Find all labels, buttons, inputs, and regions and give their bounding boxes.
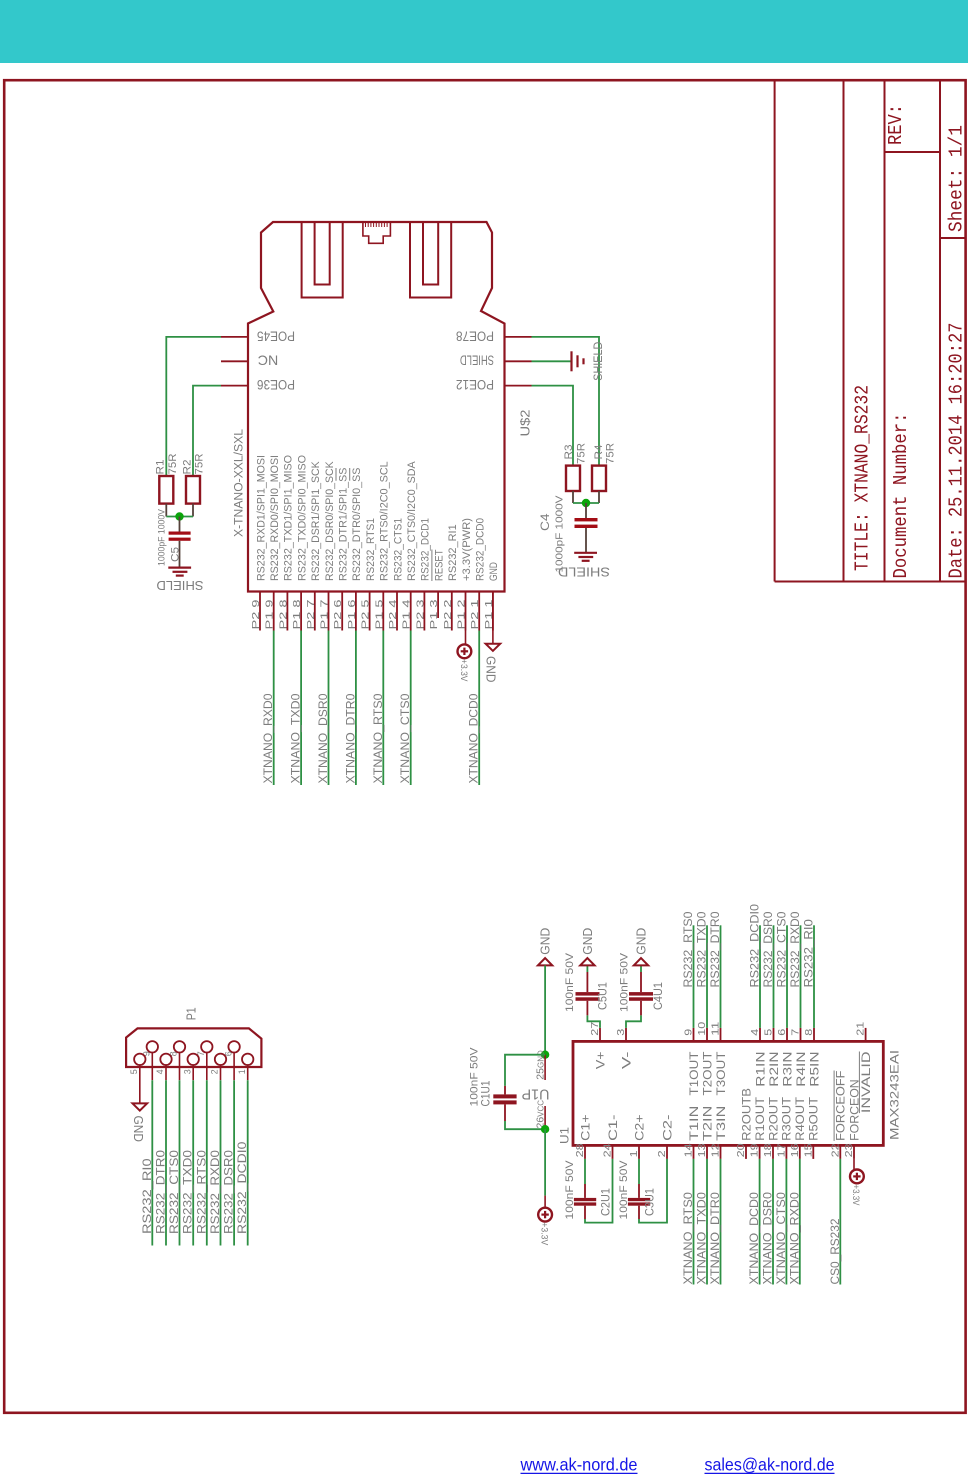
label U$2 <box>518 410 533 437</box>
title text Sheet: 1/1 <box>946 125 968 232</box>
svg-text:T1IN: T1IN <box>689 1106 701 1141</box>
svg-text:RS232_RI0: RS232_RI0 <box>804 919 816 987</box>
pin P1 9 (RS232_RXD0/SPI0_MOSI) of U$2 <box>264 455 281 631</box>
RJ45 left mounting slot <box>302 222 343 298</box>
svg-text:R4: R4 <box>593 445 605 460</box>
svg-text:P2 6: P2 6 <box>332 599 344 629</box>
wire POE78 to R4 <box>532 337 600 466</box>
pin 9 of P1 <box>142 1041 159 1080</box>
pin POE45 of U$2 <box>221 328 295 343</box>
svg-text:RS232_DTR1/SPI1_SS: RS232_DTR1/SPI1_SS <box>338 468 350 581</box>
wire POE36 to R2 <box>193 386 221 476</box>
svg-text:18: 18 <box>762 1143 774 1157</box>
svg-text:FORCEOFF: FORCEOFF <box>836 1071 848 1141</box>
svg-text:T1OUT: T1OUT <box>689 1052 701 1096</box>
svg-text:3: 3 <box>182 1069 192 1074</box>
svg-text:1000pF 1000V: 1000pF 1000V <box>554 495 565 572</box>
pin 16 R4OUT of U1 <box>789 1097 807 1159</box>
svg-text:1: 1 <box>628 1150 640 1157</box>
wire and net label XTNANO_CTS0 <box>776 1159 788 1285</box>
svg-text:SHIELD: SHIELD <box>460 353 494 368</box>
gate label U1P <box>522 1086 550 1103</box>
svg-text:POE45: POE45 <box>257 328 295 343</box>
svg-text:T3IN: T3IN <box>716 1106 728 1141</box>
svg-text:Date: 25.11.2014 16:20:27: Date: 25.11.2014 16:20:27 <box>946 323 968 579</box>
svg-text:RS232_DCDI0: RS232_DCDI0 <box>750 904 762 988</box>
junction at R1 R2 C5 <box>175 512 183 520</box>
wire VCC junction to +3.3V <box>544 1129 546 1208</box>
net label SHIELD below C5 <box>157 578 204 592</box>
pin 6 R3IN of U1 <box>776 1028 794 1087</box>
pin P2 4 (RS232_CTS1) of U$2 <box>387 518 404 631</box>
wire pin 27 to C5U1 <box>587 1001 600 1028</box>
svg-text:XTNANO_CTS0: XTNANO_CTS0 <box>400 694 412 784</box>
svg-text:C1+: C1+ <box>580 1114 592 1141</box>
shield earth symbol below C5 <box>168 568 191 576</box>
pin 17 R3OUT of U1 <box>775 1097 793 1159</box>
svg-text:CS0_RS232: CS0_RS232 <box>830 1219 842 1285</box>
svg-text:R5IN: R5IN <box>809 1052 821 1087</box>
svg-text:GND: GND <box>488 562 500 581</box>
+3.3V supply symbol below U1P <box>538 1208 552 1246</box>
svg-text:C5: C5 <box>169 547 181 562</box>
wire and net label XTNANO_RTS0 <box>683 1159 695 1285</box>
wire and net label XTNANO_DTR0 <box>345 631 357 786</box>
svg-text:XTNANO_DCD0: XTNANO_DCD0 <box>749 1192 761 1284</box>
svg-text:XTNANO_DTR0: XTNANO_DTR0 <box>345 694 357 784</box>
svg-text:Document Number:: Document Number: <box>890 413 912 579</box>
svg-text:POE12: POE12 <box>456 377 494 392</box>
svg-text:1: 1 <box>237 1069 247 1074</box>
svg-text:TITLE: XTNANO_RS232: TITLE: XTNANO_RS232 <box>852 385 874 571</box>
wire and net label XTNANO_TXD0 <box>291 631 303 786</box>
svg-text:XTNANO_TXD0: XTNANO_TXD0 <box>291 694 303 784</box>
svg-text:SHIELD: SHIELD <box>593 342 605 381</box>
svg-text:GND: GND <box>131 1116 145 1143</box>
svg-text:100nF 50V: 100nF 50V <box>469 1047 481 1107</box>
svg-text:24: 24 <box>602 1143 614 1157</box>
pin 8 R5IN of U1 <box>803 1028 821 1087</box>
svg-text:C1U1: C1U1 <box>480 1081 492 1107</box>
svg-text:5: 5 <box>763 1029 775 1036</box>
svg-text:RS232_RTS0/I2C0_SCL: RS232_RTS0/I2C0_SCL <box>379 461 391 581</box>
pin 23 FORCEON of U1 <box>843 1079 861 1159</box>
wire pin 1 to C3U1 <box>638 1159 640 1198</box>
svg-text:X-TNANO-XXL/SXL: X-TNANO-XXL/SXL <box>234 428 246 537</box>
svg-text:4: 4 <box>749 1029 761 1036</box>
connector U$2 RJ45 jack and module body outline <box>248 222 505 592</box>
svg-text:C2+: C2+ <box>634 1114 646 1141</box>
junction at pin 26 VCC <box>541 1125 549 1133</box>
pin P1 8 (RS232_TXD0/SPI0_MISO) of U$2 <box>291 455 308 631</box>
svg-text:V+: V+ <box>595 1051 607 1069</box>
pin 5 of P1 <box>129 1054 146 1075</box>
svg-text:2: 2 <box>656 1150 668 1157</box>
teal header banner <box>0 0 968 63</box>
svg-text:19: 19 <box>749 1143 761 1157</box>
svg-text:RS232_DTR0/SPI0_SS: RS232_DTR0/SPI0_SS <box>351 468 363 581</box>
svg-text:20: 20 <box>735 1143 747 1157</box>
title text TITLE: XTNANO_RS232 <box>852 385 874 571</box>
link sales@ak-nord.de <box>705 1455 835 1475</box>
svg-text:R2OUT: R2OUT <box>768 1097 780 1141</box>
svg-text:www.ak-nord.de: www.ak-nord.de <box>520 1455 638 1475</box>
svg-text:22: 22 <box>829 1143 841 1157</box>
resistor R2 75R <box>182 453 206 516</box>
svg-text:C2-: C2- <box>662 1114 674 1141</box>
link www.ak-nord.de <box>520 1455 638 1475</box>
svg-text:RS232_DCDI0: RS232_DCDI0 <box>237 1142 249 1234</box>
svg-text:REV:: REV: <box>885 104 907 145</box>
resistor R4 75R <box>592 443 617 503</box>
capacitor C4 1000pF 1000V <box>540 495 598 572</box>
svg-text:100nF 50V: 100nF 50V <box>564 952 576 1012</box>
svg-text:RS232_RI1: RS232_RI1 <box>447 524 459 581</box>
pin 4 of P1 <box>155 1054 172 1081</box>
svg-text:XTNANO_CTS0: XTNANO_CTS0 <box>776 1192 788 1284</box>
svg-text:FORCEON: FORCEON <box>849 1079 861 1141</box>
svg-text:RS232_DCD1: RS232_DCD1 <box>420 518 432 581</box>
wire POE45 to R1 <box>166 337 221 476</box>
wire and net label RS232_RXD0 <box>210 1080 222 1245</box>
svg-text:P1 8: P1 8 <box>291 599 303 629</box>
wire and net label XTNANO_TXD0 <box>697 1159 709 1285</box>
svg-text:RS232_DSR0/SPI0_SCK: RS232_DSR0/SPI0_SCK <box>324 461 336 581</box>
svg-text:9: 9 <box>683 1029 695 1036</box>
wire and net label RS232_DCDI0 <box>750 904 762 1028</box>
svg-text:2: 2 <box>210 1069 220 1074</box>
RJ45 right mounting slot <box>410 222 451 298</box>
svg-text:RS232_DSR0: RS232_DSR0 <box>763 912 775 988</box>
svg-text:RS232_TXD0/SPI0_MISO: RS232_TXD0/SPI0_MISO <box>296 455 308 581</box>
wire pin 3 to C4U1 <box>626 1001 641 1028</box>
svg-text:GND: GND <box>580 928 595 955</box>
svg-text:P2 4: P2 4 <box>387 599 399 629</box>
svg-text:RS232_DTR0: RS232_DTR0 <box>710 912 722 988</box>
svg-text:P2 9: P2 9 <box>250 599 262 629</box>
wire R1 to R2 junction net <box>166 516 193 518</box>
pin 5 R2IN of U1 <box>763 1028 781 1087</box>
pin 2 C2- of U1 <box>656 1114 674 1159</box>
wire and net label RS232_TXD0 <box>183 1080 195 1245</box>
label X-TNANO-XXL/SXL <box>234 428 246 537</box>
svg-text:U1: U1 <box>558 1127 572 1144</box>
svg-text:RS232_RI0: RS232_RI0 <box>142 1158 154 1234</box>
svg-text:P2 3: P2 3 <box>414 599 426 629</box>
pin SHIELD of U$2 <box>460 353 532 368</box>
capacitor C5U1 100nF 50V <box>564 952 610 1012</box>
pin 28 C1+ of U1 <box>574 1114 592 1159</box>
svg-text:RS232_CTS0: RS232_CTS0 <box>777 912 789 988</box>
svg-text:RS232_RTS1: RS232_RTS1 <box>365 518 377 581</box>
svg-text:RS232_DTR0: RS232_DTR0 <box>156 1150 168 1234</box>
svg-text:R2IN: R2IN <box>769 1052 781 1087</box>
wire and net label RS232_RI0 <box>804 919 816 1028</box>
pin 9 T1OUT of U1 <box>683 1028 701 1096</box>
svg-text:U$2: U$2 <box>518 410 533 437</box>
svg-text:75R: 75R <box>576 443 588 464</box>
svg-text:XTNANO_RXD0: XTNANO_RXD0 <box>263 694 275 784</box>
wire and net label XTNANO_RXD0 <box>789 1159 801 1285</box>
svg-text:C5U1: C5U1 <box>598 982 610 1010</box>
pin 14 T1IN of U1 <box>683 1106 701 1159</box>
GND symbol above power gate U1P <box>538 928 553 966</box>
svg-text:C2U1: C2U1 <box>601 1188 613 1216</box>
pin P1 5 (RS232_RTS0/I2C0_SCL) of U$2 <box>373 461 390 630</box>
wire and net label RS232_DTR0 <box>156 1080 168 1245</box>
pin 11 T3OUT of U1 <box>710 1022 728 1096</box>
svg-text:P1 9: P1 9 <box>264 599 276 629</box>
svg-text:GND: GND <box>633 928 648 955</box>
pin 3 V- of U1 <box>615 1028 633 1069</box>
title block grid lines <box>775 80 966 581</box>
pin POE78 of U$2 <box>456 328 532 343</box>
pin 18 R2OUT of U1 <box>762 1097 780 1159</box>
svg-text:GND: GND <box>538 928 553 955</box>
svg-text:XTNANO_DTR0: XTNANO_DTR0 <box>710 1192 722 1284</box>
svg-text:P2 8: P2 8 <box>277 599 289 629</box>
pin NC of U$2 <box>221 353 278 368</box>
svg-text:RS232_RTS0: RS232_RTS0 <box>196 1150 208 1234</box>
svg-text:C4U1: C4U1 <box>653 982 665 1010</box>
svg-text:Sheet: 1/1: Sheet: 1/1 <box>946 125 968 232</box>
title text REV: <box>885 104 907 145</box>
svg-text:23: 23 <box>843 1143 855 1157</box>
pin 2 of P1 <box>210 1054 227 1081</box>
resistor R3 75R <box>563 443 588 503</box>
pin P2 3 (RS232_DCD1) of U$2 <box>414 518 431 631</box>
svg-text:P2 1: P2 1 <box>469 599 481 629</box>
wire and net label RS232_DCDI0 <box>237 1080 249 1245</box>
+3.3V supply symbol at pin 23 <box>850 1159 864 1206</box>
svg-text:MAX3243EAI: MAX3243EAI <box>888 1050 902 1140</box>
wire and net label XTNANO_RTS0 <box>373 631 385 786</box>
svg-text:R4OUT: R4OUT <box>795 1097 807 1141</box>
pin 22 FORCEOFF of U1 <box>829 1071 847 1159</box>
svg-text:C1-: C1- <box>608 1114 620 1141</box>
svg-text:R1IN: R1IN <box>755 1052 767 1087</box>
pin 19 R1OUT of U1 <box>749 1097 767 1159</box>
wire C1U1 bottom to junction pin 26 <box>505 1121 545 1129</box>
pin P2 7 (RS232_DSR1/SPI1_SCK) of U$2 <box>305 461 322 631</box>
pin P1 1 (GND) of U$2 <box>483 562 500 630</box>
svg-text:P1 5: P1 5 <box>373 599 385 629</box>
svg-text:R3: R3 <box>563 445 575 460</box>
wire and net label XTNANO_DCD0 <box>749 1159 761 1285</box>
svg-text:C4: C4 <box>540 513 552 531</box>
pin 10 T2OUT of U1 <box>696 1022 714 1096</box>
wire and net label RS232_DSR0 <box>224 1080 236 1245</box>
pin P1 3 (RESET) of U$2 <box>428 549 445 629</box>
svg-text:C3U1: C3U1 <box>645 1188 657 1216</box>
wire POE12 to R3 <box>532 386 574 466</box>
pin 24 C1- of U1 <box>602 1114 620 1159</box>
junction at R3 R4 C4 <box>582 499 590 507</box>
svg-text:POE36: POE36 <box>257 377 295 392</box>
capacitor C2U1 100nF 50V <box>564 1160 613 1220</box>
IC U1 MAX3243EAI body <box>558 1041 902 1145</box>
svg-text:75R: 75R <box>194 453 206 474</box>
pin 8 of P1 <box>169 1041 186 1080</box>
svg-text:100nF 50V: 100nF 50V <box>564 1160 576 1220</box>
wire pin 28 to C2U1 <box>584 1159 586 1198</box>
svg-text:XTNANO_RXD0: XTNANO_RXD0 <box>789 1192 801 1284</box>
svg-text:8: 8 <box>803 1029 815 1036</box>
wire GND to junction pin 25 <box>544 965 546 1054</box>
svg-text:14: 14 <box>683 1143 695 1157</box>
svg-text:XTNANO_DSR0: XTNANO_DSR0 <box>763 1192 775 1284</box>
svg-text:RS232_RXD0: RS232_RXD0 <box>790 912 802 988</box>
svg-text:17: 17 <box>775 1143 787 1157</box>
svg-text:RS232_RXD0: RS232_RXD0 <box>210 1150 222 1234</box>
svg-text:sales@ak-nord.de: sales@ak-nord.de <box>705 1455 835 1475</box>
pin 27 V+ of U1 <box>589 1022 607 1069</box>
pin 7 of P1 <box>196 1041 213 1080</box>
svg-text:RS232_DSR1/SPI1_SCK: RS232_DSR1/SPI1_SCK <box>310 461 322 581</box>
pin P2 1 (RS232_DCD0) of U$2 <box>469 518 486 631</box>
svg-text:RS232_TXD0: RS232_TXD0 <box>183 1150 195 1234</box>
svg-text:RESET: RESET <box>433 549 445 581</box>
pin 25 GND of U1 power gate <box>535 1050 547 1080</box>
svg-text:P1 4: P1 4 <box>401 599 413 629</box>
svg-text:NC: NC <box>257 353 278 368</box>
pin 4 R1IN of U1 <box>749 1028 767 1087</box>
svg-text:6: 6 <box>776 1029 788 1036</box>
pin P1 4 (RS232_CTS0/I2C0_SDA) of U$2 <box>401 461 418 631</box>
wire junction to C1U1 top <box>505 1055 545 1086</box>
pin 20 R2OUTB of U1 <box>735 1088 753 1159</box>
pin P1 7 (RS232_DSR0/SPI0_SCK) of U$2 <box>319 461 336 631</box>
RJ45 center clip tab <box>363 222 391 243</box>
wire C2U1 bottom to pin 24 <box>585 1159 613 1223</box>
capacitor C4U1 100nF 50V <box>619 952 666 1012</box>
pin 6 of P1 <box>223 1041 240 1080</box>
svg-text:P2 2: P2 2 <box>442 599 454 629</box>
pin POE36 of U$2 <box>221 377 295 392</box>
wire and net label RS232_RXD0 <box>790 912 802 1028</box>
svg-text:+3.3V(PWR): +3.3V(PWR) <box>461 518 473 581</box>
svg-text:RS232_CTS1: RS232_CTS1 <box>392 518 404 581</box>
svg-text:XTNANO_TXD0: XTNANO_TXD0 <box>697 1192 709 1284</box>
wire and net label XTNANO_DTR0 <box>710 1159 722 1285</box>
svg-text:R3IN: R3IN <box>782 1052 794 1087</box>
capacitor C1U1 100nF 50V <box>469 1047 517 1121</box>
svg-text:16: 16 <box>789 1143 801 1157</box>
pin 1 of P1 <box>237 1054 254 1081</box>
shield earth symbol below C4 <box>574 553 597 561</box>
svg-text:RS232_DSR0: RS232_DSR0 <box>224 1150 236 1234</box>
svg-text:RS232_TXD1/SPI1_MISO: RS232_TXD1/SPI1_MISO <box>283 455 295 581</box>
pin 12 T3IN of U1 <box>710 1106 728 1159</box>
svg-text:75R: 75R <box>605 443 617 464</box>
svg-text:28: 28 <box>574 1143 586 1157</box>
svg-text:GND: GND <box>484 656 498 683</box>
pin 26 VCC of U1 power gate <box>535 1100 547 1130</box>
junction at pin 25 GND <box>541 1051 549 1059</box>
net label SHIELD <box>593 342 605 381</box>
title text Document Number: <box>890 413 912 579</box>
svg-text:RS232_RTS0: RS232_RTS0 <box>683 912 695 988</box>
svg-text:T3OUT: T3OUT <box>716 1052 728 1096</box>
wire and net label CS0_RS232 <box>830 1159 842 1285</box>
wire and net label RS232_RTS0 <box>683 912 695 1028</box>
svg-text:RS232_CTS0: RS232_CTS0 <box>169 1150 181 1234</box>
svg-text:RS232_TXD0: RS232_TXD0 <box>697 912 709 988</box>
wire and net label RS232_DTR0 <box>710 912 722 1028</box>
wire R3 to R4 junction net <box>573 502 599 504</box>
svg-text:V-: V- <box>621 1051 633 1069</box>
svg-text:P2 5: P2 5 <box>360 599 372 629</box>
svg-text:3: 3 <box>615 1029 627 1036</box>
wire SHIELD pin to shield symbol <box>532 360 572 362</box>
wire and net label XTNANO_CTS0 <box>400 631 412 786</box>
title text Date: 25.11.2014 16:20:27 <box>946 323 968 579</box>
resistor R1 75R <box>154 453 179 516</box>
net label SHIELD below C4 <box>558 565 610 579</box>
svg-text:T2OUT: T2OUT <box>702 1052 714 1096</box>
svg-text:100nF 50V: 100nF 50V <box>619 952 631 1012</box>
pin P2 6 (RS232_DTR1/SPI1_SS) of U$2 <box>332 468 349 631</box>
pin P2 2 (RS232_RI1) of U$2 <box>442 524 459 630</box>
pin P1 2 (+3.3V(PWR)) of U$2 <box>456 518 473 631</box>
svg-text:XTNANO_DSR0: XTNANO_DSR0 <box>318 694 330 784</box>
wire C3U1 bottom to pin 2 <box>639 1159 667 1223</box>
svg-text:RS232_RXD0/SPI0_MOSI: RS232_RXD0/SPI0_MOSI <box>269 455 281 581</box>
GND symbol at P1 pin 5 <box>131 1103 147 1142</box>
svg-text:R2OUTB: R2OUTB <box>741 1088 753 1141</box>
svg-text:R4IN: R4IN <box>796 1052 808 1087</box>
svg-text:POE78: POE78 <box>456 328 494 343</box>
svg-text:P1 2: P1 2 <box>456 599 468 629</box>
svg-text:+3.3V: +3.3V <box>851 1185 861 1206</box>
svg-text:SHIELD: SHIELD <box>157 578 204 592</box>
pin 15 R5OUT of U1 <box>802 1097 820 1159</box>
svg-text:1000pF 1000V: 1000pF 1000V <box>156 509 166 566</box>
wire and net label XTNANO_DSR0 <box>763 1159 775 1285</box>
wire and net label RS232_CTS0 <box>169 1080 181 1245</box>
pin 7 R4IN of U1 <box>790 1028 808 1087</box>
svg-text:+3.3V: +3.3V <box>540 1222 550 1245</box>
svg-text:75R: 75R <box>167 453 179 474</box>
pin P2 5 (RS232_RTS1) of U$2 <box>360 518 377 631</box>
svg-text:RS232_DCD0: RS232_DCD0 <box>475 518 487 581</box>
wire pin 5 to GND <box>139 1065 141 1103</box>
pin 3 of P1 <box>182 1054 199 1081</box>
svg-text:+3.3V: +3.3V <box>459 659 469 682</box>
wire and net label RS232_CTS0 <box>777 912 789 1028</box>
svg-text:26VCC: 26VCC <box>535 1100 547 1129</box>
svg-text:R3OUT: R3OUT <box>782 1097 794 1141</box>
svg-text:21: 21 <box>855 1022 867 1036</box>
GND symbol at pin P1 1 <box>484 592 501 683</box>
connector P1 DB9 body <box>126 1007 261 1067</box>
svg-text:XTNANO_RTS0: XTNANO_RTS0 <box>683 1192 695 1284</box>
wire and net label XTNANO_DSR0 <box>318 631 330 786</box>
svg-text:RS232_RXD1/SPI1_MOSI: RS232_RXD1/SPI1_MOSI <box>255 455 267 581</box>
wire and net label RS232_DSR0 <box>763 912 775 1028</box>
svg-text:P1: P1 <box>184 1007 198 1020</box>
svg-text:4: 4 <box>155 1069 165 1074</box>
svg-text:13: 13 <box>696 1143 708 1157</box>
svg-text:12: 12 <box>710 1143 722 1157</box>
svg-text:XTNANO_RTS0: XTNANO_RTS0 <box>373 694 385 784</box>
wire and net label RS232_RI0 <box>142 1080 154 1245</box>
svg-text:P1 3: P1 3 <box>428 599 440 629</box>
wire and net label XTNANO_DCD0 <box>469 631 481 786</box>
pin 13 T2IN of U1 <box>696 1106 714 1159</box>
svg-text:SHIELD: SHIELD <box>558 565 610 579</box>
svg-text:T2IN: T2IN <box>702 1106 714 1141</box>
